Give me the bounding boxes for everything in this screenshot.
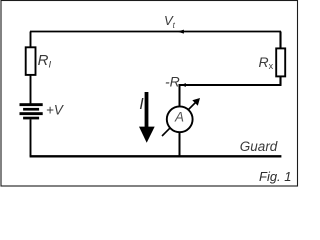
svg-text:Guard: Guard (240, 139, 278, 154)
current arrow I head (139, 127, 155, 143)
svg-text:Fig. 1: Fig. 1 (259, 169, 292, 184)
svg-text:I: I (139, 96, 144, 113)
svg-text:+V: +V (46, 102, 64, 117)
wire right vertical upper (279, 32, 281, 49)
wire -R horizontal (180, 84, 282, 86)
arrowhead on top wire (177, 30, 184, 34)
svg-text:A: A (174, 109, 184, 124)
current arrow I shaft (145, 92, 149, 127)
wire right vertical lower (279, 76, 281, 85)
wire left vertical middle (30, 75, 32, 104)
ammeter adjustment arrowhead (192, 98, 200, 106)
wire left vertical upper (30, 32, 32, 48)
resistor RI (26, 47, 36, 75)
battery plate 3 (long) (20, 112, 43, 115)
battery plate 2 (short) (23, 108, 39, 111)
arrowhead on -R wire (181, 83, 186, 87)
border frame (1, 1, 298, 187)
wire left vertical lower (30, 119, 32, 156)
wire bottom (guard bus) (30, 155, 282, 157)
ammeter A1 body (167, 106, 193, 132)
resistor Rx (276, 48, 285, 76)
wire ammeter top (179, 84, 181, 107)
battery plate 1 (long) (20, 103, 43, 106)
ammeter adjustment arrow line (162, 102, 197, 137)
battery plate 4 (short) (23, 117, 39, 120)
svg-text:-R: -R (165, 74, 180, 90)
wire ammeter bottom (179, 133, 181, 157)
wire top (V node) (30, 31, 281, 33)
